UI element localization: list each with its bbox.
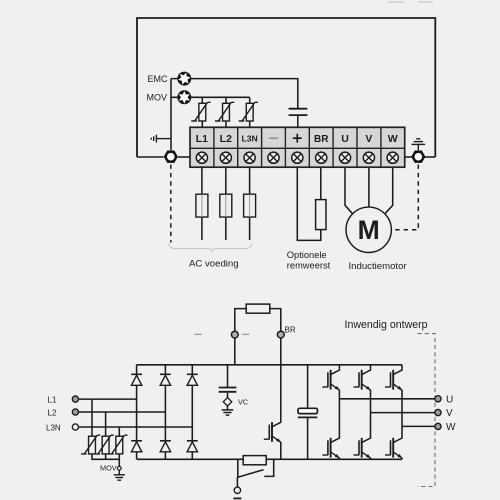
svg-text:U: U — [341, 133, 349, 145]
wire DC plus bus — [137, 364, 402, 366]
svg-text:W: W — [388, 133, 398, 145]
inverter leg2 rail mid — [370, 390, 372, 436]
wire output U — [339, 398, 435, 400]
svg-text:U: U — [446, 394, 453, 405]
screw terminal L1 — [196, 152, 207, 163]
shunt resistor — [243, 456, 266, 465]
transistor Q4 lower — [322, 436, 339, 459]
inverter leg1 rail upper — [338, 365, 340, 369]
wire enclosure-left to ground nut — [137, 156, 164, 158]
svg-text:V: V — [446, 408, 453, 419]
wire minus terminal drop — [234, 338, 236, 365]
transistor Q6 lower — [385, 436, 402, 459]
wire varistor tails to terminal cells — [202, 121, 249, 127]
wire BR to chopper — [280, 338, 282, 420]
inverter leg1 rail mid — [338, 390, 340, 436]
svg-text:L2: L2 — [220, 133, 232, 145]
inverter leg3 rail upper — [401, 365, 403, 369]
terminal V out — [435, 410, 441, 416]
screw terminal W — [387, 152, 398, 163]
varistor V2 — [95, 435, 114, 454]
wire varistor riser 1 — [91, 399, 93, 436]
wire L1 phase — [79, 398, 137, 400]
wire L3N feeder with fuse — [249, 167, 251, 240]
terminal L2 — [72, 409, 78, 415]
wire VC cap drop — [227, 365, 229, 387]
bridge leg 2 wire — [164, 365, 166, 460]
capacitor EMC filter — [289, 109, 308, 115]
svg-text:VC: VC — [238, 398, 248, 407]
node BR terminal — [277, 331, 284, 338]
dashed motor earth wire — [391, 165, 418, 230]
terminal W out — [435, 423, 441, 429]
screw terminal U — [339, 152, 350, 163]
wire capacitor to plus cell — [297, 116, 299, 127]
svg-text:MOV: MOV — [147, 93, 168, 103]
wire varistor riser 3 — [118, 427, 120, 436]
wire W to motor — [385, 167, 393, 214]
svg-text:L2: L2 — [48, 408, 57, 417]
wire VC cap to node — [227, 393, 229, 399]
diode D2 — [160, 374, 171, 385]
inverter leg3 rail mid — [401, 390, 403, 436]
varistor V1 — [81, 435, 100, 454]
wire BR to brake resistor — [320, 167, 322, 199]
wire EMC/MOV vertical bus to nut — [170, 79, 172, 151]
svg-text:L3N: L3N — [46, 423, 61, 432]
transistor Q3 upper — [385, 368, 402, 391]
svg-text:AC voeding: AC voeding — [189, 259, 239, 270]
wire MOV lead and MOV net — [171, 96, 250, 98]
switch bypass blade — [238, 470, 264, 478]
earth symbol MOV — [114, 470, 125, 480]
earth symbol VC — [222, 405, 234, 415]
drive enclosure outline — [137, 18, 435, 157]
svg-text:L1: L1 — [196, 133, 208, 145]
wire bypass to terminal — [236, 477, 238, 487]
diode D6 — [187, 441, 198, 452]
diode D3 — [187, 374, 198, 385]
node minus terminal — [231, 331, 238, 338]
wire L2 feeder with fuse — [225, 167, 227, 240]
svg-text:Inwendig ontwerp: Inwendig ontwerp — [345, 319, 428, 331]
varistor MOV2 — [215, 102, 234, 121]
wire varistor common to earth — [92, 454, 119, 467]
wire L1 feeder with fuse — [201, 167, 203, 240]
inverter leg2 rail upper — [370, 365, 372, 369]
wire minus terminal to resistor — [235, 309, 246, 332]
capacitor DC bus — [298, 408, 317, 413]
brace AC voeding — [169, 244, 253, 252]
dashed internal boundary — [418, 334, 436, 487]
terminal L1 — [72, 396, 78, 402]
wire varistor risers from MOV net — [202, 97, 249, 103]
terminal U out — [435, 396, 441, 402]
motor M1 — [346, 207, 391, 252]
node VC diamond — [223, 398, 231, 406]
screw terminal BR — [316, 152, 327, 163]
svg-text:L1: L1 — [48, 396, 57, 405]
wire L3N phase — [79, 426, 193, 428]
transistor chopper IGBT — [264, 421, 281, 444]
svg-text:M: M — [358, 215, 380, 245]
svg-text:EMC: EMC — [148, 74, 169, 84]
EMC screw terminal — [175, 70, 193, 88]
diode D1 — [131, 374, 142, 385]
svg-text:W: W — [446, 422, 456, 433]
wire nut to enclosure right — [425, 156, 435, 158]
fuse F2 — [220, 194, 232, 217]
bridge leg 3 wire — [191, 365, 193, 460]
screw terminal L3N — [244, 152, 255, 163]
node MOV earth circle — [117, 466, 121, 470]
svg-text:V: V — [365, 133, 372, 145]
MOV screw terminal — [177, 90, 191, 104]
screw terminal minus — [268, 152, 279, 163]
label minus dash near — [242, 333, 249, 335]
internal resistor top — [246, 304, 270, 313]
inverter leg2 rail bottom — [370, 458, 372, 459]
varistor MOV1 — [191, 102, 210, 121]
screw terminal L2 — [220, 152, 231, 163]
ground nut left — [164, 151, 178, 163]
fuse F1 — [196, 194, 208, 217]
earth stub bottom — [233, 497, 241, 499]
capacitor VC — [219, 388, 237, 392]
wire shunt bypass left drop — [237, 459, 239, 477]
node bypass terminal — [234, 487, 240, 493]
bridge leg 1 wire — [136, 365, 138, 460]
chassis ground symbol left — [151, 135, 171, 143]
wire chopper emitter to minus bus — [280, 442, 282, 459]
wire block right to nut — [405, 156, 412, 158]
transistor Q1 upper — [322, 368, 339, 391]
svg-text:BR: BR — [285, 326, 296, 335]
brake resistor optional — [316, 200, 326, 230]
wire output W — [402, 425, 435, 427]
wire varistor riser 2 — [105, 412, 107, 436]
ground nut right — [411, 151, 425, 163]
wire EMC lead and EMC net to capacitor — [171, 79, 298, 108]
inverter leg3 rail bottom — [401, 458, 403, 459]
fuse F3 — [244, 194, 256, 217]
inverter leg1 rail bottom — [338, 458, 340, 459]
wire plus to brake resistor — [297, 167, 321, 240]
wire film cap to minus bus — [307, 417, 309, 459]
wire L2 phase — [79, 411, 166, 413]
varistor V3 — [108, 435, 127, 454]
wire bypass right contact — [264, 459, 273, 476]
wire film cap drop — [307, 365, 309, 409]
transistor Q5 lower — [354, 436, 371, 459]
screw terminal plus — [292, 152, 303, 163]
label minus cell — [269, 137, 278, 139]
svg-text:remweerst: remweerst — [287, 260, 331, 270]
terminal block body — [190, 127, 405, 167]
diode D4 — [131, 441, 142, 452]
terminal L3N — [72, 424, 78, 430]
wire DC minus bus — [137, 458, 402, 460]
label plus cell — [293, 134, 302, 143]
dashed earth wire left — [170, 165, 172, 243]
wire output V — [371, 412, 435, 414]
earth symbol right — [412, 139, 426, 150]
varistor MOV3 — [239, 102, 258, 121]
wire U to motor — [345, 167, 353, 214]
wire V to motor — [368, 167, 370, 207]
svg-text:L3N: L3N — [241, 134, 257, 144]
diode D5 — [160, 441, 171, 452]
svg-text:Inductiemotor: Inductiemotor — [349, 261, 408, 272]
svg-text:Optionele: Optionele — [287, 250, 327, 260]
svg-text:BR: BR — [314, 134, 329, 145]
screw terminal V — [363, 152, 374, 163]
label minus dash far — [194, 333, 202, 335]
svg-text:MOV: MOV — [100, 463, 117, 472]
wire resistor to BR terminal — [270, 309, 281, 332]
transistor Q2 upper — [354, 368, 371, 391]
wire ground nut to terminal block left — [178, 156, 190, 158]
